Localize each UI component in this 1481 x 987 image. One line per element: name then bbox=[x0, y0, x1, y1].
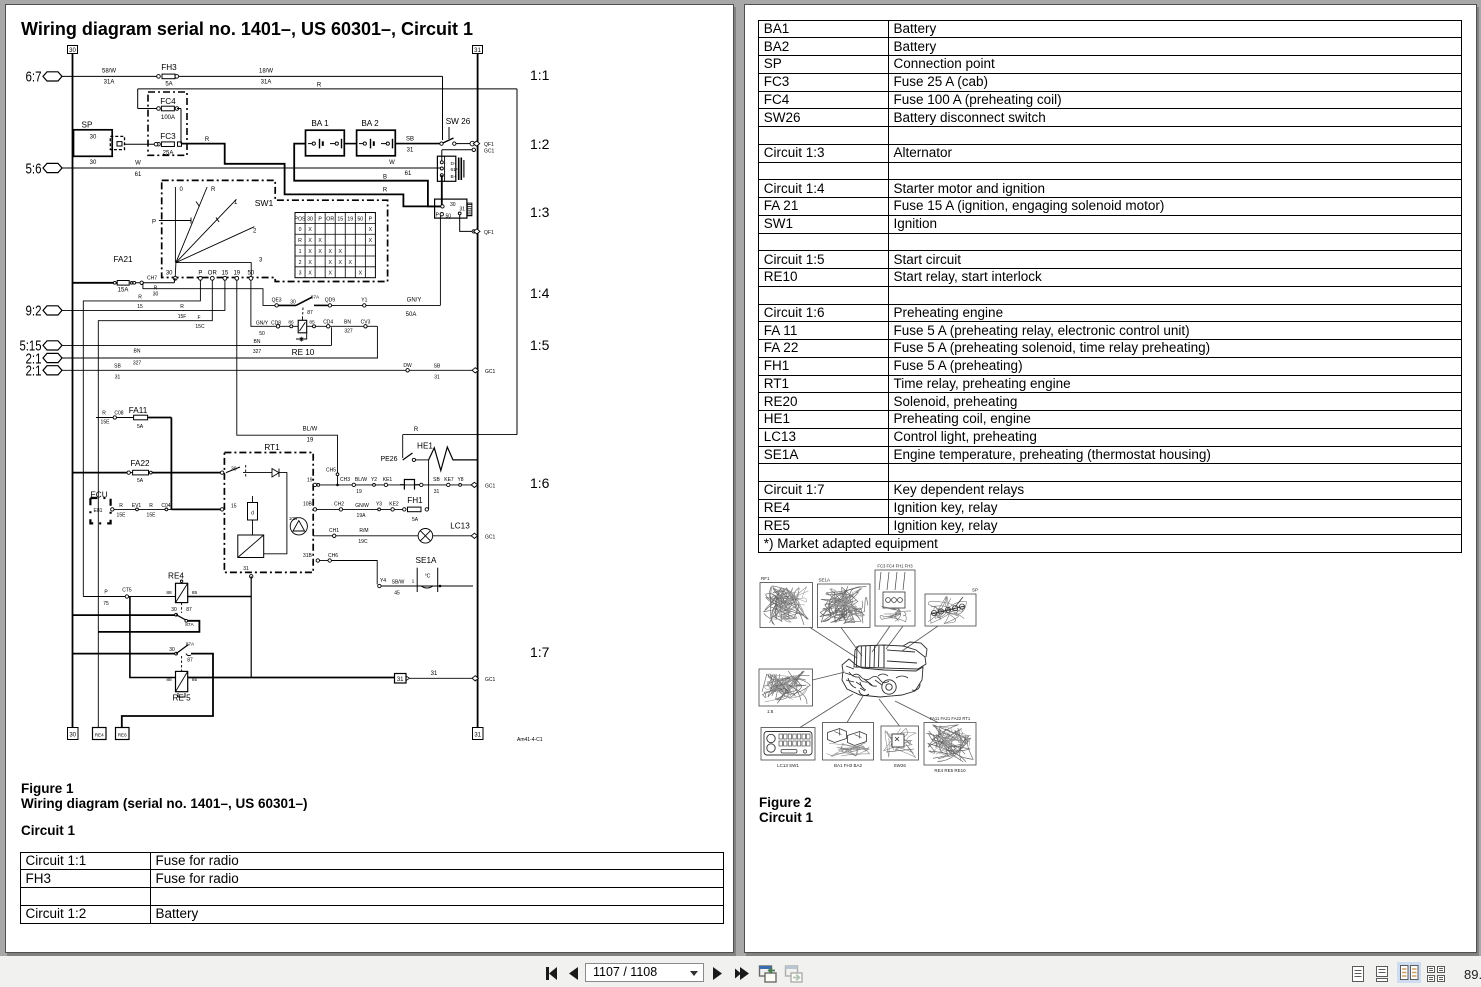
wire SB 31 from 2:1 to GC1 bbox=[61, 369, 474, 371]
svg-text:75: 75 bbox=[103, 601, 109, 607]
svg-text:°C: °C bbox=[425, 574, 431, 580]
wire ECU to RT1 15 bbox=[114, 508, 171, 510]
continuous layout icon bbox=[1375, 966, 1389, 982]
svg-text:X: X bbox=[328, 271, 332, 277]
svg-text:RE 5: RE 5 bbox=[172, 694, 191, 703]
svg-text:CV3: CV3 bbox=[361, 319, 371, 325]
figure 2 thumbnail fusebox bbox=[875, 570, 915, 626]
svg-text:CH2: CH2 bbox=[334, 502, 344, 508]
svg-text:BA 2: BA 2 bbox=[361, 119, 379, 128]
svg-text:327: 327 bbox=[344, 328, 353, 334]
two page layout icon (active) bbox=[1397, 962, 1421, 983]
svg-text:30: 30 bbox=[90, 160, 97, 166]
svg-text:BA1 FH3 BA2: BA1 FH3 BA2 bbox=[834, 763, 863, 768]
svg-text:1:2: 1:2 bbox=[530, 136, 550, 152]
svg-text:6:7: 6:7 bbox=[26, 69, 42, 86]
wire SW1 OR terminal (15C) bbox=[98, 280, 212, 728]
svg-text:RE6: RE6 bbox=[118, 733, 127, 738]
svg-text:19: 19 bbox=[233, 271, 240, 277]
svg-text:Y1: Y1 bbox=[361, 298, 367, 304]
svg-text:GN/Y: GN/Y bbox=[256, 321, 269, 327]
svg-text:1: 1 bbox=[412, 579, 415, 585]
svg-text:87: 87 bbox=[187, 658, 193, 664]
svg-text:SW 26: SW 26 bbox=[446, 117, 471, 126]
relay RE10 start relay coil bbox=[298, 320, 307, 333]
svg-text:BA 1: BA 1 bbox=[311, 119, 329, 128]
svg-text:10B: 10B bbox=[289, 516, 298, 522]
svg-text:FA11: FA11 bbox=[129, 406, 148, 415]
svg-text:30: 30 bbox=[90, 135, 97, 141]
single page layout icon bbox=[1352, 966, 1364, 982]
svg-text:RE4: RE4 bbox=[168, 572, 184, 581]
svg-text:30: 30 bbox=[307, 216, 313, 222]
svg-text:E81: E81 bbox=[94, 508, 103, 514]
node box 31 (mid) bbox=[395, 674, 407, 684]
wire FC4 output bbox=[177, 108, 181, 110]
svg-text:W: W bbox=[389, 160, 395, 166]
svg-text:15: 15 bbox=[222, 271, 229, 277]
svg-text:GN/Y: GN/Y bbox=[407, 298, 422, 304]
svg-text:Y2: Y2 bbox=[371, 477, 377, 483]
svg-text:PE26: PE26 bbox=[380, 456, 397, 463]
svg-text:FA11 FA21 FA22 RT1: FA11 FA21 FA22 RT1 bbox=[930, 716, 971, 721]
svg-text:50: 50 bbox=[446, 214, 452, 220]
svg-text:X: X bbox=[308, 249, 312, 255]
svg-text:R: R bbox=[317, 82, 322, 88]
wire 19 BL/W to GC1 (1:6) bbox=[317, 484, 473, 486]
svg-text:0: 0 bbox=[299, 227, 302, 233]
svg-text:SW1: SW1 bbox=[255, 198, 274, 208]
svg-text:15F: 15F bbox=[178, 314, 187, 320]
svg-text:50: 50 bbox=[248, 271, 255, 277]
svg-text:1:6: 1:6 bbox=[530, 475, 550, 491]
svg-text:1: 1 bbox=[234, 200, 238, 206]
svg-text:30: 30 bbox=[169, 647, 175, 653]
svg-text:CT5: CT5 bbox=[122, 588, 132, 594]
svg-text:5A: 5A bbox=[137, 424, 144, 430]
svg-text:31: 31 bbox=[474, 48, 481, 54]
svg-text:15E: 15E bbox=[117, 513, 127, 519]
svg-text:15: 15 bbox=[137, 304, 143, 310]
svg-text:31A: 31A bbox=[104, 80, 115, 86]
svg-text:P: P bbox=[104, 590, 108, 596]
svg-text:CH5: CH5 bbox=[326, 468, 336, 474]
svg-text:15E: 15E bbox=[101, 420, 111, 426]
svg-text:30: 30 bbox=[69, 733, 76, 739]
svg-text:P: P bbox=[318, 216, 322, 222]
svg-text:31: 31 bbox=[115, 375, 121, 381]
RT1 internal switch bbox=[226, 467, 240, 473]
svg-text:31: 31 bbox=[397, 677, 404, 683]
contact square FC3 output bbox=[178, 142, 182, 146]
node 30 top terminal box bbox=[68, 46, 78, 54]
svg-text:FA21: FA21 bbox=[113, 255, 133, 264]
svg-text:87: 87 bbox=[307, 310, 313, 316]
svg-text:R: R bbox=[102, 410, 106, 416]
svg-text:15: 15 bbox=[231, 504, 237, 510]
previous view button bbox=[758, 964, 779, 984]
two page continuous icon bbox=[1427, 966, 1445, 982]
svg-text:SB: SB bbox=[433, 477, 440, 483]
svg-text:87A: 87A bbox=[186, 642, 195, 648]
svg-text:19: 19 bbox=[307, 478, 313, 484]
svg-text:15: 15 bbox=[337, 216, 343, 222]
svg-text:X: X bbox=[308, 227, 312, 233]
svg-text:45: 45 bbox=[394, 591, 400, 597]
svg-text:QD9: QD9 bbox=[325, 298, 336, 304]
svg-text:R: R bbox=[149, 503, 153, 509]
svg-text:19A: 19A bbox=[357, 513, 367, 519]
svg-text:X: X bbox=[338, 260, 342, 266]
svg-text:61: 61 bbox=[451, 167, 457, 173]
svg-text:X: X bbox=[369, 238, 373, 244]
SW1 rotary contact fan bbox=[174, 187, 176, 263]
svg-text:50: 50 bbox=[259, 331, 265, 337]
next page button bbox=[712, 966, 724, 981]
svg-text:100A: 100A bbox=[161, 115, 175, 121]
svg-text:R: R bbox=[383, 188, 388, 194]
svg-text:P: P bbox=[152, 219, 156, 225]
svg-text:OR: OR bbox=[208, 271, 218, 277]
svg-text:0: 0 bbox=[180, 187, 184, 193]
wire 10B GN/W 19A to FH1 bbox=[317, 508, 404, 510]
SP aux contact (dashed) bbox=[110, 136, 124, 149]
svg-text:31B: 31B bbox=[303, 553, 313, 559]
svg-text:RE4 RE5 RE10: RE4 RE5 RE10 bbox=[934, 768, 966, 773]
svg-text:GC1: GC1 bbox=[485, 534, 496, 540]
svg-text:RF1: RF1 bbox=[761, 576, 770, 581]
wire from 15C vertical bbox=[95, 417, 97, 419]
wire bus to RE5 30 bbox=[73, 653, 176, 655]
svg-text:327: 327 bbox=[253, 349, 262, 355]
svg-text:OR: OR bbox=[326, 216, 334, 222]
figure 2 thumbnail SW26 switch bbox=[881, 726, 919, 760]
svg-text:BN: BN bbox=[344, 319, 351, 325]
svg-text:5A: 5A bbox=[165, 82, 172, 88]
tag box RE6 bbox=[116, 728, 130, 740]
wire RE4 87A to RE4 tag bbox=[98, 621, 199, 632]
svg-text:31: 31 bbox=[407, 148, 414, 154]
svg-text:D−: D− bbox=[451, 161, 457, 167]
svg-text:31: 31 bbox=[431, 671, 438, 677]
wire RE5 87 out bbox=[122, 654, 213, 728]
figure 2 thumbnail cab 1:8 bbox=[759, 669, 813, 706]
svg-text:1:7: 1:7 bbox=[530, 644, 550, 660]
svg-text:FC3: FC3 bbox=[160, 132, 176, 141]
node CH7 bbox=[132, 282, 175, 284]
svg-text:31A: 31A bbox=[261, 80, 272, 86]
svg-text:R: R bbox=[119, 503, 123, 509]
figure 2 thumbnail dashboard bbox=[761, 728, 815, 761]
svg-text:15A: 15A bbox=[118, 288, 129, 294]
svg-text:X: X bbox=[308, 238, 312, 244]
svg-text:X: X bbox=[328, 249, 332, 255]
svg-text:RE4: RE4 bbox=[95, 733, 104, 738]
wire RE4 85 to RT1 31 drop bbox=[188, 596, 252, 598]
svg-text:61: 61 bbox=[135, 172, 142, 178]
next view button (disabled) bbox=[784, 964, 805, 984]
svg-text:19: 19 bbox=[347, 216, 353, 222]
svg-text:1:8: 1:8 bbox=[767, 709, 774, 714]
svg-text:9:2: 9:2 bbox=[26, 303, 42, 320]
svg-text:Am41-4-C1: Am41-4-C1 bbox=[517, 737, 543, 743]
first page button bbox=[544, 966, 559, 981]
svg-text:2: 2 bbox=[299, 260, 302, 266]
svg-text:1:1: 1:1 bbox=[530, 67, 550, 83]
svg-text:FC3 FC4 FH1 FH3: FC3 FC4 FH1 FH3 bbox=[877, 564, 913, 569]
svg-text:CH6: CH6 bbox=[328, 553, 338, 559]
bus wire 30 (left vertical) bbox=[72, 54, 74, 729]
svg-text:X: X bbox=[359, 271, 363, 277]
toolbar bbox=[0, 956, 1481, 987]
svg-text:GC1: GC1 bbox=[485, 369, 496, 375]
wire R (top feed to preheat coil) bbox=[138, 88, 517, 90]
connector symbol bbox=[404, 480, 414, 490]
svg-text:30: 30 bbox=[153, 292, 159, 298]
svg-text:5A: 5A bbox=[412, 517, 419, 523]
fuse box FC3/FC4 (dash-dot) bbox=[148, 92, 187, 155]
solenoid RE20 (pump circle) bbox=[290, 518, 307, 535]
svg-text:P: P bbox=[198, 271, 202, 277]
svg-text:R/M: R/M bbox=[359, 528, 368, 534]
RT1 coil bbox=[248, 503, 258, 521]
ignition switch SW1 (dash-dot box) bbox=[162, 180, 388, 281]
start interlock contact QE3 / QD9 (RE10 contact) bbox=[275, 304, 278, 307]
svg-text:DW: DW bbox=[403, 363, 412, 369]
starter motor and solenoid (circuit 1:4) bbox=[435, 199, 467, 218]
svg-text:18/W: 18/W bbox=[259, 69, 273, 75]
wire RE10 85 to CV3 bbox=[307, 325, 364, 327]
figure 2 thumbnail SE1A bbox=[818, 584, 871, 628]
SW1 terminals 30 P OR 15 19 50 bbox=[173, 276, 177, 280]
svg-text:GN/W: GN/W bbox=[355, 503, 369, 509]
svg-text:5A: 5A bbox=[137, 478, 144, 484]
svg-text:31: 31 bbox=[243, 566, 249, 572]
wire battery link + SB 31 bbox=[344, 143, 356, 145]
node 31 bottom terminal box bbox=[473, 728, 484, 740]
svg-text:15C: 15C bbox=[195, 324, 205, 330]
svg-text:5:6: 5:6 bbox=[26, 160, 42, 177]
svg-text:30: 30 bbox=[166, 271, 173, 277]
svg-text:P: P bbox=[369, 216, 373, 222]
svg-text:CH3: CH3 bbox=[340, 477, 350, 483]
svg-text:50: 50 bbox=[357, 216, 363, 222]
svg-text:X: X bbox=[318, 238, 322, 244]
svg-text:B: B bbox=[383, 175, 387, 181]
svg-text:SB: SB bbox=[434, 363, 441, 369]
figure 2 machine illustration bbox=[842, 642, 927, 697]
wire up to starter 50 bbox=[439, 216, 441, 306]
wire SW1 P terminal to relays (75) bbox=[83, 280, 200, 596]
svg-text:R: R bbox=[298, 238, 302, 244]
svg-text:31: 31 bbox=[434, 375, 440, 381]
svg-text:QF1: QF1 bbox=[484, 230, 494, 236]
svg-text:GC1: GC1 bbox=[485, 677, 496, 683]
svg-text:F: F bbox=[197, 315, 200, 321]
figure 2 thumbnail batteries bbox=[823, 723, 874, 761]
svg-text:SB/W: SB/W bbox=[392, 580, 405, 586]
svg-text:SW26: SW26 bbox=[894, 763, 907, 768]
svg-text:QF1: QF1 bbox=[484, 142, 494, 148]
svg-text:58/W: 58/W bbox=[102, 69, 116, 75]
svg-text:87A: 87A bbox=[311, 295, 320, 301]
wire 58/W 31A from 6:7 to SW26 bbox=[62, 75, 159, 77]
RE10 suppressor bbox=[296, 333, 307, 339]
svg-text:30: 30 bbox=[69, 48, 76, 54]
svg-text:19C: 19C bbox=[358, 539, 368, 545]
wire alternator B+ down to starter 30 bbox=[441, 175, 443, 206]
wire SP to FC3 bbox=[125, 143, 159, 145]
wire starter 31 to QF1 bbox=[458, 212, 461, 215]
wire bus to RE4 30 bbox=[73, 614, 176, 616]
svg-text:85: 85 bbox=[192, 590, 198, 596]
svg-text:QE3: QE3 bbox=[272, 298, 282, 304]
wire CT5 down to RE5 88 bbox=[130, 597, 176, 678]
figure 2 callout lines bbox=[810, 628, 857, 659]
bus wire 31 (right vertical) bbox=[477, 54, 479, 729]
svg-text:GC1: GC1 bbox=[484, 148, 495, 154]
svg-text:1:5: 1:5 bbox=[530, 337, 550, 353]
svg-text:BL/W: BL/W bbox=[303, 427, 318, 433]
svg-text:X: X bbox=[349, 260, 353, 266]
node 31 top terminal box bbox=[473, 46, 483, 54]
svg-text:KE1: KE1 bbox=[383, 477, 393, 483]
wire W 61 from 5:6 to alternator bbox=[61, 167, 442, 169]
svg-text:3: 3 bbox=[299, 271, 302, 277]
svg-text:25A: 25A bbox=[163, 151, 174, 157]
left page bbox=[5, 4, 734, 953]
svg-text:2: 2 bbox=[253, 228, 257, 234]
svg-text:3: 3 bbox=[259, 258, 263, 264]
svg-text:50A: 50A bbox=[406, 312, 417, 318]
svg-text:FH1: FH1 bbox=[407, 496, 423, 505]
svg-text:W: W bbox=[135, 161, 141, 167]
svg-text:CD4: CD4 bbox=[323, 319, 333, 325]
wire BN 327 from 2:1 to CV3 bbox=[61, 357, 378, 359]
svg-text:19: 19 bbox=[356, 489, 362, 495]
svg-text:327: 327 bbox=[133, 361, 142, 367]
svg-text:FH3: FH3 bbox=[161, 63, 177, 72]
svg-text:BN: BN bbox=[134, 348, 141, 354]
svg-text:88: 88 bbox=[166, 590, 172, 596]
svg-text:R: R bbox=[205, 137, 210, 143]
svg-text:10B: 10B bbox=[303, 502, 313, 508]
prev page button bbox=[567, 966, 579, 981]
svg-text:CH7: CH7 bbox=[147, 276, 157, 282]
svg-text:30: 30 bbox=[450, 202, 456, 208]
svg-text:KE7: KE7 bbox=[444, 477, 454, 483]
svg-text:1: 1 bbox=[299, 249, 302, 255]
marker GC1 + wire to alternator bbox=[472, 148, 475, 151]
zoom percent bbox=[1464, 967, 1481, 982]
last page button bbox=[734, 966, 750, 981]
svg-text:R: R bbox=[414, 427, 419, 433]
svg-text:30: 30 bbox=[171, 607, 177, 613]
svg-text:SB: SB bbox=[114, 363, 121, 369]
svg-text:CD8: CD8 bbox=[271, 321, 281, 327]
svg-text:GC1: GC1 bbox=[485, 483, 496, 489]
svg-text:SP: SP bbox=[972, 588, 978, 593]
alternator (circuit 1:3) bbox=[437, 156, 455, 181]
wire 31 rail to node 31 box bbox=[188, 677, 395, 679]
svg-text:31: 31 bbox=[460, 207, 466, 213]
svg-text:Y4: Y4 bbox=[380, 578, 386, 584]
svg-text:SE1A: SE1A bbox=[819, 578, 831, 583]
svg-text:R: R bbox=[138, 295, 142, 301]
svg-text:87: 87 bbox=[186, 607, 192, 613]
svg-text:X: X bbox=[328, 260, 332, 266]
svg-text:C08: C08 bbox=[114, 410, 123, 416]
page number combo bbox=[585, 963, 704, 982]
svg-text:FC4: FC4 bbox=[160, 97, 176, 106]
wire P 75 CT5 to RE4 coil bbox=[83, 596, 175, 598]
svg-text:BL/W: BL/W bbox=[355, 477, 368, 483]
svg-text:2:1: 2:1 bbox=[26, 363, 42, 380]
svg-text:RE 10: RE 10 bbox=[292, 348, 315, 357]
starter brush hatch bbox=[467, 203, 472, 216]
svg-text:31: 31 bbox=[474, 733, 481, 739]
svg-text:BN: BN bbox=[254, 339, 261, 345]
svg-text:LC13: LC13 bbox=[450, 522, 470, 531]
wire R (FC3 to starter motor) bbox=[181, 144, 442, 207]
svg-text:HE1: HE1 bbox=[417, 442, 433, 451]
svg-text:31: 31 bbox=[434, 489, 440, 495]
figure 2 thumbnail engine relays bbox=[924, 723, 976, 766]
svg-text:CH1: CH1 bbox=[329, 528, 339, 534]
svg-text:POS: POS bbox=[295, 216, 306, 222]
svg-text:FA22: FA22 bbox=[130, 459, 150, 468]
wire 31B CH6 to SE1A bbox=[320, 560, 329, 562]
wire SW1 15 terminal to 9:2 (R 15F) bbox=[61, 280, 225, 310]
SW1 contact table bbox=[295, 213, 375, 278]
svg-text:61: 61 bbox=[405, 171, 412, 177]
svg-text:X: X bbox=[338, 249, 342, 255]
wire BN 327 from 5:15 to RE10 bbox=[62, 344, 332, 346]
svg-text:R: R bbox=[180, 304, 184, 310]
svg-text:X: X bbox=[308, 271, 312, 277]
RT1 diode bbox=[272, 469, 279, 478]
svg-text:Y3: Y3 bbox=[376, 502, 382, 508]
node 30 bottom terminal box bbox=[68, 728, 79, 740]
svg-text:19: 19 bbox=[307, 438, 314, 444]
svg-text:B+: B+ bbox=[451, 174, 457, 180]
svg-text:d: d bbox=[251, 511, 254, 517]
svg-text:RT1: RT1 bbox=[264, 443, 280, 452]
svg-text:X: X bbox=[308, 260, 312, 266]
svg-text:SB: SB bbox=[406, 137, 414, 143]
figure 2 thumbnail SP bbox=[925, 594, 976, 626]
svg-text:Y8: Y8 bbox=[457, 477, 463, 483]
wire B battery minus to starter bbox=[294, 144, 442, 207]
wire SW1 19 terminal to RT1 (BL/W 19) bbox=[237, 280, 338, 485]
svg-text:R: R bbox=[211, 187, 216, 193]
svg-text:SP: SP bbox=[82, 121, 93, 130]
svg-text:87A: 87A bbox=[185, 622, 194, 628]
svg-text:1:4: 1:4 bbox=[530, 285, 550, 301]
tag box RE4 bbox=[93, 728, 107, 740]
svg-text:15E: 15E bbox=[147, 513, 157, 519]
svg-text:X: X bbox=[318, 249, 322, 255]
svg-text:X: X bbox=[369, 227, 373, 233]
right page bbox=[744, 4, 1477, 953]
svg-text:KE2: KE2 bbox=[389, 502, 399, 508]
svg-text:LC13 SW1: LC13 SW1 bbox=[777, 763, 799, 768]
RT1 resistor block bbox=[238, 535, 264, 558]
svg-text:1:3: 1:3 bbox=[530, 204, 550, 220]
svg-text:SE1A: SE1A bbox=[416, 556, 437, 565]
wire SW1 50 terminal to RE10 coil bbox=[251, 280, 276, 326]
figure 2 thumbnail HE1 bbox=[760, 583, 813, 628]
